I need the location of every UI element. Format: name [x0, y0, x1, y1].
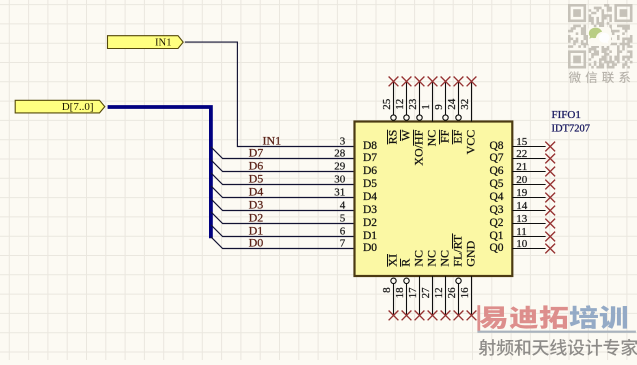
svg-text:D0: D0: [249, 235, 264, 249]
svg-text:Q7: Q7: [489, 152, 503, 164]
svg-text:Q0: Q0: [489, 242, 503, 254]
svg-text:29: 29: [334, 161, 346, 173]
svg-text:25: 25: [381, 98, 393, 110]
svg-text:D6: D6: [249, 158, 264, 172]
svg-text:D3: D3: [363, 204, 377, 216]
svg-text:12: 12: [433, 287, 445, 298]
svg-text:Q4: Q4: [489, 191, 503, 203]
svg-text:Q2: Q2: [489, 217, 503, 229]
svg-text:20: 20: [516, 174, 528, 186]
svg-text:Q3: Q3: [489, 204, 503, 216]
svg-text:16: 16: [459, 287, 471, 299]
svg-text:GND: GND: [464, 240, 478, 266]
svg-text:23: 23: [407, 98, 419, 110]
svg-text:24: 24: [446, 98, 458, 110]
svg-text:Q1: Q1: [489, 230, 503, 242]
svg-text:10: 10: [516, 238, 528, 250]
svg-text:D0: D0: [363, 242, 377, 254]
svg-text:IN1: IN1: [155, 38, 171, 49]
svg-text:D8: D8: [363, 140, 377, 152]
svg-text:D7: D7: [249, 145, 264, 159]
svg-text:12: 12: [394, 99, 406, 110]
svg-text:Q6: Q6: [489, 165, 503, 177]
svg-text:Q5: Q5: [489, 178, 503, 190]
svg-text:FIFO1: FIFO1: [552, 109, 581, 121]
svg-text:3: 3: [340, 136, 346, 148]
svg-text:27: 27: [420, 287, 432, 299]
svg-text:5: 5: [340, 213, 346, 225]
svg-text:IDT7207: IDT7207: [552, 123, 591, 134]
svg-text:D2: D2: [363, 217, 377, 229]
svg-text:18: 18: [394, 287, 406, 299]
svg-text:IN1: IN1: [263, 133, 282, 147]
svg-text:14: 14: [516, 200, 528, 212]
svg-text:D6: D6: [363, 165, 377, 177]
svg-text:D7: D7: [363, 152, 377, 164]
svg-text:D[7..0]: D[7..0]: [62, 101, 94, 113]
svg-text:21: 21: [516, 161, 527, 173]
svg-text:30: 30: [334, 174, 346, 186]
svg-text:D4: D4: [363, 191, 377, 203]
svg-text:13: 13: [516, 213, 528, 225]
svg-text:D2: D2: [249, 210, 264, 224]
svg-text:7: 7: [340, 238, 346, 250]
svg-text:D4: D4: [249, 184, 264, 198]
svg-text:32: 32: [459, 99, 471, 110]
svg-text:Q8: Q8: [489, 140, 503, 152]
svg-text:D1: D1: [363, 230, 377, 242]
svg-text:D5: D5: [363, 178, 377, 190]
svg-text:26: 26: [446, 287, 458, 299]
svg-text:4: 4: [340, 200, 346, 212]
svg-text:11: 11: [516, 226, 527, 238]
svg-text:VCC: VCC: [464, 130, 478, 155]
svg-text:NC: NC: [425, 250, 439, 267]
svg-text:NC: NC: [425, 130, 439, 147]
svg-text:D5: D5: [249, 171, 264, 185]
svg-text:9: 9: [433, 104, 445, 110]
svg-text:17: 17: [407, 287, 419, 299]
svg-text:28: 28: [334, 148, 346, 160]
svg-text:1: 1: [420, 104, 432, 110]
svg-text:31: 31: [334, 187, 345, 199]
svg-text:6: 6: [340, 226, 346, 238]
svg-text:22: 22: [516, 148, 527, 160]
svg-text:15: 15: [516, 136, 528, 148]
svg-text:19: 19: [516, 187, 528, 199]
svg-text:D3: D3: [249, 197, 264, 211]
svg-text:NC: NC: [438, 250, 452, 267]
svg-text:8: 8: [381, 287, 393, 293]
svg-text:NC: NC: [412, 250, 426, 267]
